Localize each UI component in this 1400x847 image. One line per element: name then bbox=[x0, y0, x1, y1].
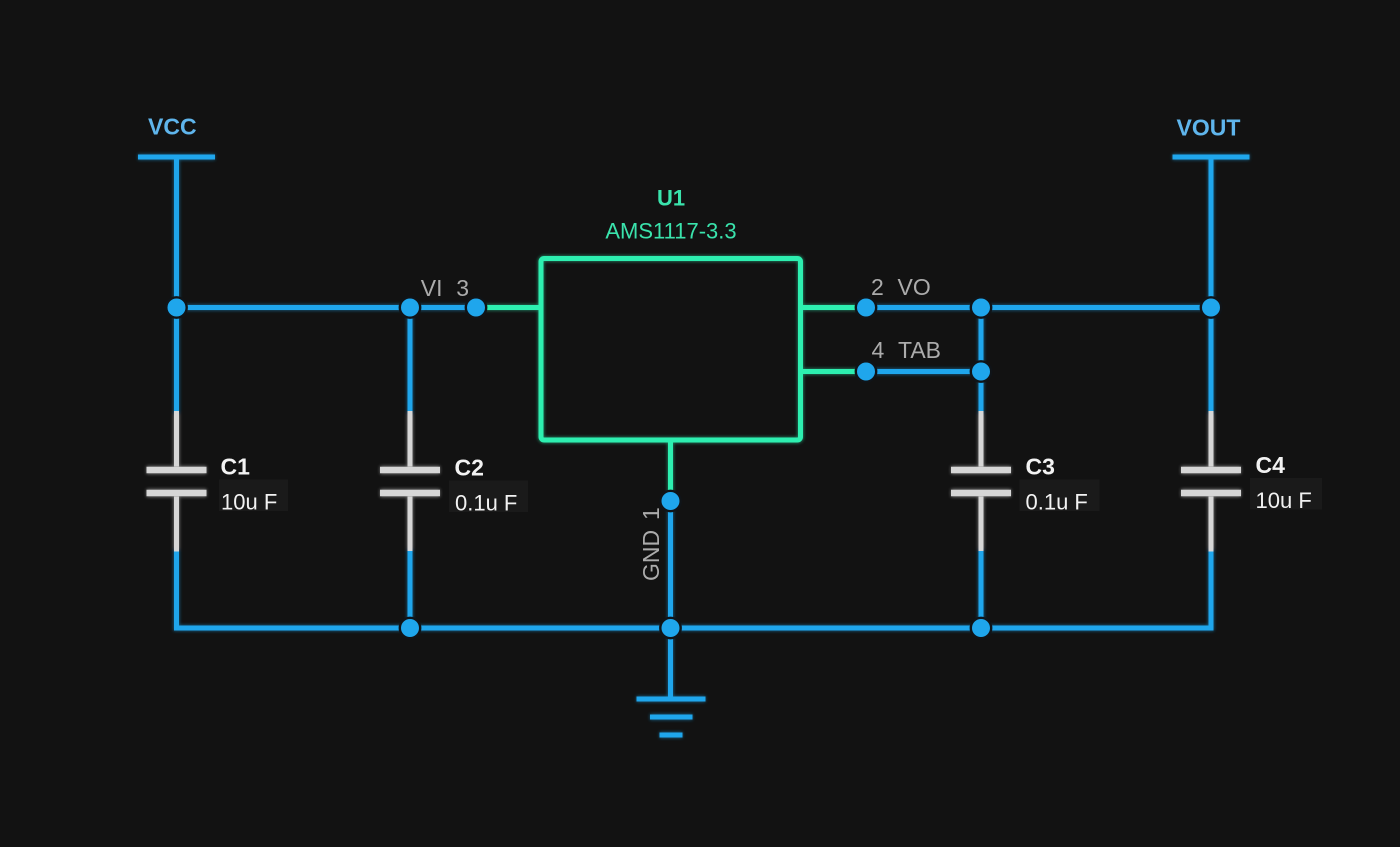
svg-text:VCC: VCC bbox=[148, 114, 197, 140]
svg-text:10u F: 10u F bbox=[221, 490, 277, 515]
capacitor C2 bbox=[380, 308, 440, 629]
junction dot D (VOUT/C4) bbox=[1201, 297, 1221, 317]
svg-text:GND: GND bbox=[638, 530, 664, 581]
pin 4 TAB stub bbox=[801, 369, 867, 374]
pin label 4 TAB bbox=[872, 337, 942, 363]
junction dot A (VCC/C1) bbox=[166, 297, 186, 317]
op-amp U1 body bbox=[541, 259, 801, 441]
value box C3 bbox=[1020, 480, 1100, 512]
svg-text:3: 3 bbox=[456, 275, 469, 301]
wire pin4 to C3 bbox=[866, 369, 981, 374]
junction dot F (C2 bottom) bbox=[400, 618, 420, 638]
wire gnd stem bbox=[668, 628, 673, 699]
wire glow underlay bbox=[138, 157, 1250, 735]
junction dot E (TAB/C3 top) bbox=[971, 361, 991, 381]
svg-text:2: 2 bbox=[871, 274, 884, 300]
wire top rail left bbox=[177, 305, 477, 310]
svg-text:VOUT: VOUT bbox=[1177, 115, 1241, 141]
value box C1 bbox=[219, 480, 288, 512]
pin 2 VO stub bbox=[801, 305, 867, 310]
svg-text:AMS1117-3.3: AMS1117-3.3 bbox=[605, 219, 736, 244]
value box C2 bbox=[449, 481, 528, 513]
svg-text:VI: VI bbox=[421, 275, 443, 301]
pin dot TAB bbox=[856, 361, 876, 381]
capacitor C4 bbox=[1181, 308, 1241, 552]
svg-text:10u F: 10u F bbox=[1256, 488, 1312, 513]
wire bottom bus bbox=[177, 549, 1212, 628]
svg-text:U1: U1 bbox=[657, 186, 685, 211]
junction dot G (gnd bus) bbox=[660, 618, 680, 638]
pin 3 VI stub bbox=[476, 305, 541, 310]
pin dot GND bbox=[660, 491, 680, 511]
pin label 2 VO bbox=[871, 274, 931, 300]
svg-text:4: 4 bbox=[872, 337, 885, 363]
svg-text:0.1u F: 0.1u F bbox=[1026, 490, 1088, 515]
svg-text:C4: C4 bbox=[1256, 452, 1286, 478]
junction dot C (VO/C3 branch) bbox=[971, 297, 991, 317]
wire VO to TAB vertical bbox=[979, 308, 984, 372]
capacitor C1 bbox=[147, 308, 207, 552]
svg-text:1: 1 bbox=[638, 507, 664, 520]
wire gnd pin to bus bbox=[668, 501, 673, 628]
svg-text:C2: C2 bbox=[455, 455, 484, 481]
svg-text:0.1u F: 0.1u F bbox=[455, 491, 517, 516]
capacitor C3 bbox=[951, 372, 1011, 629]
pin dot VI bbox=[466, 297, 486, 317]
ground symbol bbox=[637, 699, 706, 735]
pin label VI 3 bbox=[421, 275, 469, 301]
pin 1 GND stub bbox=[668, 438, 673, 502]
svg-text:TAB: TAB bbox=[898, 337, 941, 363]
junction dot H (C3 bottom) bbox=[971, 618, 991, 638]
value box C4 bbox=[1250, 478, 1322, 510]
pin dot VO bbox=[856, 297, 876, 317]
svg-text:C1: C1 bbox=[221, 454, 251, 480]
svg-text:C3: C3 bbox=[1026, 454, 1055, 480]
pin label GND 1 bbox=[638, 507, 664, 581]
power flag VOUT bbox=[1173, 157, 1250, 308]
power flag VCC bbox=[138, 157, 215, 308]
wire top rail right bbox=[866, 305, 1211, 310]
junction dot B (C2 top) bbox=[400, 297, 420, 317]
svg-text:VO: VO bbox=[898, 274, 931, 300]
